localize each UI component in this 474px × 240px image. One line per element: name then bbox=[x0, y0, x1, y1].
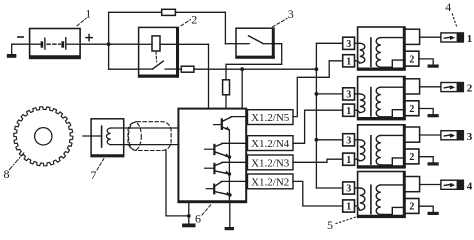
wire coil 4 HV to spark plug bbox=[420, 184, 441, 186]
label 8 (toothed wheel) with leader bbox=[4, 152, 26, 182]
connector label X1.2/N4 bbox=[248, 136, 294, 151]
wire top feed right bbox=[175, 12, 236, 43]
svg-text:4: 4 bbox=[467, 180, 473, 192]
ignition coil 3 box (element 5) bbox=[358, 125, 405, 168]
fuse F1 bbox=[162, 9, 176, 15]
svg-text:X1.2/N5: X1.2/N5 bbox=[251, 112, 290, 124]
coil 1 core bbox=[370, 38, 372, 66]
coil 3 secondary top wire bbox=[381, 134, 405, 136]
svg-text:X1.2/N2: X1.2/N2 bbox=[251, 177, 289, 189]
coil 1 primary winding bbox=[360, 43, 365, 63]
wire main bus bbox=[194, 68, 317, 70]
coil 1 HV terminal bbox=[405, 29, 420, 44]
ignition switch box (element 3) bbox=[236, 28, 274, 58]
controller box (element 6) bbox=[178, 109, 246, 203]
svg-text:1: 1 bbox=[346, 202, 351, 213]
node shield-ground bbox=[187, 214, 191, 218]
coil 3 secondary bottom wire bbox=[381, 158, 405, 165]
svg-text:X1.2/N4: X1.2/N4 bbox=[251, 138, 290, 150]
wire controller output X1.2/N2 bbox=[246, 180, 247, 182]
wire coil 1 HV to spark plug bbox=[420, 36, 441, 38]
connector label X1.2/N5 bbox=[248, 110, 294, 125]
svg-text:3: 3 bbox=[288, 7, 294, 21]
transistor VT3 bbox=[205, 162, 246, 174]
coil 3 terminal 3 stub bbox=[355, 139, 360, 141]
svg-text:2: 2 bbox=[409, 152, 414, 163]
sensor box (element 7) bbox=[91, 119, 124, 157]
coil 1 secondary winding bbox=[376, 38, 381, 68]
svg-text:3: 3 bbox=[346, 90, 351, 101]
coil 2 secondary top wire bbox=[381, 86, 405, 88]
coil 4 terminal 1 stub bbox=[355, 206, 360, 210]
svg-text:1: 1 bbox=[346, 155, 351, 166]
coil 2 secondary bottom wire bbox=[381, 110, 405, 117]
svg-text:5: 5 bbox=[327, 218, 333, 232]
coil 3 terminal 2 box bbox=[405, 149, 419, 164]
connector label X1.2/N2 bbox=[248, 174, 294, 189]
ground (coil 3) bbox=[428, 162, 439, 165]
connector label X1.2/N3 bbox=[248, 155, 294, 170]
ignition coil 4 box (element 5) bbox=[358, 172, 405, 218]
coil 1 secondary top wire bbox=[381, 37, 405, 39]
coil 2 terminal 1 box bbox=[343, 104, 355, 117]
coil 2 terminal 3 box bbox=[343, 88, 355, 101]
wire coil 4 terminal 2 to ground bbox=[419, 206, 433, 212]
relay coil K2 bbox=[152, 36, 160, 51]
svg-text:2: 2 bbox=[191, 12, 197, 26]
wire +12V riser bbox=[316, 43, 343, 188]
wire relay coil feed bbox=[140, 43, 153, 45]
battery GB 1 (element 1) bbox=[30, 29, 81, 59]
ground (controller left) bbox=[182, 216, 195, 227]
wire relay contact to fuse F2 bbox=[178, 68, 181, 70]
coil 3 core bbox=[370, 136, 372, 164]
coil 1 terminal 3 stub bbox=[355, 42, 360, 44]
wire controller output X1.2/N3 bbox=[246, 161, 247, 163]
sensor coil winding bbox=[106, 128, 110, 145]
coil 1 terminal 1 box bbox=[343, 55, 355, 68]
controller ground pin left bbox=[188, 203, 190, 216]
wire controller output X1.2/N5 bbox=[246, 116, 247, 118]
wire relay coil to controller bbox=[160, 44, 209, 108]
svg-text:7: 7 bbox=[91, 168, 97, 182]
wire shield to ground bbox=[166, 150, 189, 216]
ground (controller right) bbox=[225, 203, 234, 231]
svg-text:6: 6 bbox=[195, 212, 201, 226]
wire X1.2/N3 to coil 3 terminal 1 bbox=[293, 159, 343, 162]
wire fuse F3 to controller bbox=[225, 95, 227, 108]
svg-text:X1.2/N3: X1.2/N3 bbox=[251, 158, 290, 170]
spark plug 3 number bbox=[467, 131, 473, 143]
label 2 (relay) with leader bbox=[181, 12, 197, 26]
coil 4 terminal 3 box bbox=[343, 182, 355, 195]
label + (battery plus) bbox=[86, 35, 92, 41]
coil 3 terminal 3 box bbox=[343, 134, 355, 147]
wire ignition switch output bbox=[226, 44, 282, 80]
coil 2 core bbox=[370, 88, 372, 116]
coil 4 terminal 3 stub bbox=[355, 187, 360, 189]
ground (coil 2) bbox=[428, 114, 439, 117]
wire coil 2 terminal 2 to ground bbox=[419, 109, 433, 115]
label 6 (controller) with leader bbox=[195, 205, 211, 226]
coil 3 HV terminal bbox=[405, 127, 420, 142]
coil 2 primary winding bbox=[360, 94, 365, 113]
wire battery negative bbox=[12, 43, 30, 45]
node C (bus to riser) bbox=[315, 67, 319, 71]
coil 4 primary winding bbox=[360, 188, 365, 210]
label 1 (battery) with leader bbox=[77, 7, 91, 26]
spark plug 4 number bbox=[467, 180, 473, 192]
coil 2 terminal 2 box bbox=[405, 101, 419, 116]
spark plug 3 (element 4) bbox=[441, 131, 464, 140]
coil 3 terminal 1 box bbox=[343, 153, 355, 166]
ignition coil 1 box (element 5) bbox=[358, 27, 405, 70]
spark plug 4 (element 4) bbox=[441, 180, 464, 189]
label 4 (spark plugs) with leader bbox=[445, 0, 457, 28]
transistor VT1 bbox=[214, 117, 246, 131]
coil 2 secondary winding bbox=[376, 87, 381, 117]
coil 2 terminal 3 stub bbox=[355, 93, 360, 95]
node A (battery + junction) bbox=[107, 42, 111, 46]
spark plug 2 (element 4) bbox=[441, 83, 464, 92]
wire node B down to controller bbox=[241, 69, 243, 108]
fuse F3 (controller supply) bbox=[223, 80, 230, 95]
wire battery positive to node A bbox=[80, 43, 139, 45]
wire sensor output lower bbox=[111, 144, 179, 146]
ignition coil 2 box (element 5) bbox=[358, 77, 405, 120]
shielded cable (dashed shield) bbox=[128, 122, 171, 151]
transistor VT2 bbox=[205, 143, 246, 157]
wire coil 3 HV to spark plug bbox=[420, 134, 441, 136]
node D (riser to coil 2) bbox=[315, 92, 344, 96]
wire coil 2 HV to spark plug bbox=[420, 86, 441, 88]
coil 3 secondary winding bbox=[376, 135, 381, 165]
wire coil 3 terminal 2 to ground bbox=[419, 157, 433, 163]
wire X1.2/N5 to coil 1 terminal 1 bbox=[293, 61, 343, 117]
coil 4 secondary top wire bbox=[381, 184, 405, 186]
coil 2 HV terminal bbox=[405, 79, 420, 94]
svg-text:2: 2 bbox=[409, 104, 414, 115]
svg-text:3: 3 bbox=[346, 136, 351, 147]
label 7 (sensor) with leader bbox=[91, 158, 105, 183]
spark plug 1 (element 4) bbox=[441, 33, 464, 42]
svg-text:2: 2 bbox=[467, 83, 473, 95]
relay box (element 2) bbox=[139, 27, 179, 77]
ground (battery negative) bbox=[7, 44, 17, 58]
label 3 (ignition switch) with leader bbox=[273, 7, 294, 27]
coil 1 terminal 1 stub bbox=[355, 61, 360, 63]
coil 4 secondary bottom wire bbox=[381, 207, 405, 214]
coil 1 terminal 3 box bbox=[343, 37, 355, 50]
coil 3 primary winding bbox=[360, 140, 365, 161]
svg-text:3: 3 bbox=[346, 39, 351, 50]
svg-text:3: 3 bbox=[467, 131, 473, 143]
wire top feed left bbox=[109, 11, 162, 13]
fuse F2 bbox=[181, 66, 194, 72]
node B (bus to controller) bbox=[240, 67, 244, 71]
coil 1 secondary bottom wire bbox=[381, 60, 405, 67]
svg-text:3: 3 bbox=[346, 184, 351, 195]
wire node A up to fuse bus bbox=[108, 12, 110, 44]
spark plug 1 number bbox=[467, 33, 473, 45]
coil 2 terminal 1 stub bbox=[355, 110, 360, 112]
svg-text:1: 1 bbox=[346, 57, 351, 68]
svg-text:1: 1 bbox=[346, 106, 351, 117]
toothed wheel (element 8) bbox=[14, 107, 73, 166]
ground (coil 4) bbox=[428, 212, 439, 215]
coil 4 secondary winding bbox=[376, 185, 381, 215]
wire controller output X1.2/N4 bbox=[246, 142, 247, 144]
wire sensor output upper bbox=[111, 127, 179, 129]
svg-text:8: 8 bbox=[4, 167, 10, 181]
node rail-VT3 bbox=[228, 172, 232, 176]
wire node A down to relay contact bbox=[109, 44, 139, 69]
node rail-VT4 bbox=[228, 193, 232, 197]
relay mechanical link (dashed) bbox=[155, 52, 158, 62]
coil 4 HV terminal bbox=[405, 177, 420, 192]
svg-text:2: 2 bbox=[409, 202, 414, 213]
spark plug 2 number bbox=[467, 83, 473, 95]
coil 4 core bbox=[370, 185, 372, 213]
node E (riser to coil 3) bbox=[315, 138, 344, 142]
transistor VT4 bbox=[206, 181, 245, 195]
relay switch contact bbox=[140, 61, 178, 69]
wire X1.2/N2 to coil 4 terminal 1 bbox=[293, 181, 343, 206]
label 5 (ignition coils) with leader bbox=[327, 217, 358, 233]
node rail-VT2 bbox=[228, 155, 232, 159]
emitter rail bbox=[228, 130, 230, 202]
coil 4 terminal 1 box bbox=[343, 200, 355, 213]
sensor pole piece bbox=[83, 126, 102, 147]
svg-text:4: 4 bbox=[445, 0, 451, 14]
ground (coil 1) bbox=[428, 65, 439, 68]
svg-text:2: 2 bbox=[409, 54, 414, 65]
coil 3 terminal 1 stub bbox=[355, 159, 360, 161]
coil 4 terminal 2 box bbox=[405, 199, 419, 214]
wire coil 1 terminal 2 to ground bbox=[419, 59, 433, 65]
wire X1.2/N4 to coil 2 terminal 1 bbox=[293, 110, 343, 143]
coil 1 terminal 2 box bbox=[405, 51, 419, 66]
ignition switch contact bbox=[237, 36, 274, 44]
label - (battery minus) bbox=[18, 36, 23, 38]
svg-text:1: 1 bbox=[467, 33, 473, 45]
